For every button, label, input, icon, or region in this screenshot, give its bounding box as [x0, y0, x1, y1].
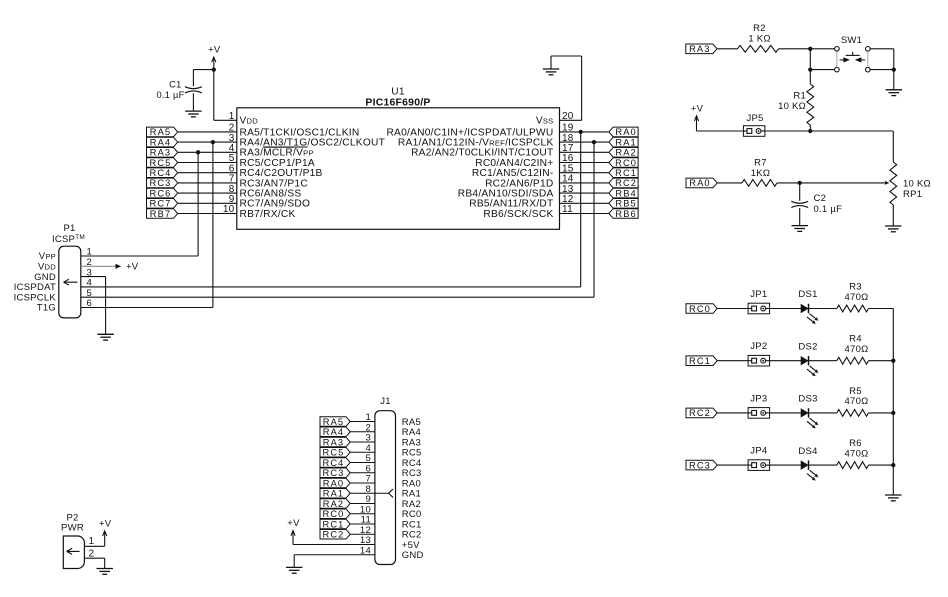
net flag RC3 (U1 pin 7): [147, 178, 178, 188]
wire R7 to RP1 wiper: [777, 182, 885, 184]
svg-text:RA2: RA2: [323, 499, 344, 509]
junction LED bus row 3: [891, 411, 895, 415]
svg-text:SW1: SW1: [841, 35, 862, 46]
svg-text:RA0: RA0: [689, 178, 710, 188]
net flag RC5 (J1 pin 4): [320, 447, 350, 457]
U1 pin 18 name: [398, 133, 574, 149]
wire RA3 to R2: [717, 48, 737, 50]
P1 pin 2 label: [38, 257, 92, 273]
svg-text:JP4: JP4: [750, 446, 767, 457]
U1 pin 16 name: [475, 153, 574, 169]
U1 pin 15 name: [472, 163, 574, 179]
junction VPP on RA3 wire: [196, 150, 200, 154]
U1 pin 11 name: [483, 204, 573, 220]
P1 pin 4 label: [14, 278, 92, 294]
LED DS1: [801, 304, 818, 324]
net flag RA5 (J1 pin 1): [320, 417, 350, 427]
svg-text:470Ω: 470Ω: [845, 448, 869, 459]
wire to C1: [193, 69, 213, 71]
wire J1 pin 7: [350, 482, 375, 484]
wire RC0 to JP1: [718, 308, 749, 310]
capacitor C1: [156, 70, 201, 112]
P2 pin numbers: [89, 536, 95, 560]
ground at LED bus: [885, 495, 902, 501]
svg-text:10 KΩ: 10 KΩ: [778, 101, 806, 112]
svg-text:JP1: JP1: [750, 289, 767, 300]
wire DS3 to R5: [808, 412, 836, 414]
switch SW1 pushbutton: [835, 35, 870, 72]
svg-text:DS3: DS3: [798, 394, 817, 405]
svg-text:+V: +V: [691, 103, 704, 114]
wire J1 pin 5: [350, 462, 375, 464]
LED DS4: [801, 460, 818, 480]
jumper JP1: [748, 303, 770, 314]
net flag RC3 (J1 pin 6): [320, 468, 350, 478]
P1 pin 3 label: [34, 267, 92, 283]
svg-text:RC5: RC5: [323, 448, 345, 458]
svg-text:R7: R7: [754, 158, 767, 169]
resistor R5: [837, 386, 869, 416]
net flag RA1 (U1 pin 18): [609, 137, 638, 147]
U1 pin 3 name: [229, 133, 385, 149]
wire U1 pin 19 stub: [560, 131, 609, 133]
svg-text:RB4: RB4: [615, 188, 636, 198]
resistor R3: [837, 282, 869, 312]
wire U1 pin 17 stub: [560, 151, 609, 153]
net flag RA0 (J1 pin 7): [320, 478, 350, 488]
net flag RC6 (U1 pin 8): [147, 188, 178, 198]
wire P1 pin3 GND: [81, 277, 106, 335]
U1 pin 7 name: [229, 174, 308, 190]
net flag RC1 (U1 pin 15): [609, 168, 638, 178]
net flag RA4 (J1 pin 2): [320, 427, 350, 437]
J1 pin8 key mark: [375, 489, 393, 497]
U1 pin 4 name: [229, 143, 314, 159]
svg-text:RA2: RA2: [615, 148, 636, 158]
svg-text:1: 1: [89, 536, 95, 547]
net flag RC3 (LED row 4): [686, 460, 717, 470]
svg-text:RA0: RA0: [615, 127, 636, 137]
wire U1 pin 18 stub: [560, 141, 609, 143]
svg-text:RC3: RC3: [150, 178, 172, 188]
wire R3 to ground bus: [869, 308, 894, 310]
wire JP5 to RP1 top: [765, 131, 893, 162]
junction C2 tap: [798, 181, 802, 185]
wire U1 pin 9 stub: [178, 202, 237, 204]
P1 pin2 +V arrow: [81, 262, 139, 273]
wire J1 pin 9: [350, 503, 375, 505]
wire ICSPCLK (U1 pin18 to P1 pin5): [81, 142, 594, 297]
ground at SW1: [886, 90, 903, 96]
wire J1 pin 4: [350, 451, 375, 453]
U1 pin 1 name: [229, 111, 259, 127]
net flag RB6 (U1 pin 11): [609, 209, 638, 219]
connector J1 body: [375, 396, 396, 565]
svg-text:RB5: RB5: [615, 199, 636, 209]
svg-text:RA4: RA4: [150, 137, 171, 147]
svg-text:U1: U1: [391, 87, 405, 98]
wire U1 pin 6 stub: [178, 172, 237, 174]
wire JP1 to DS1: [770, 308, 801, 310]
wire RC2 to JP3: [718, 412, 749, 414]
svg-text:RC2: RC2: [323, 530, 345, 540]
junction R1 top: [808, 67, 812, 71]
svg-text:RA3: RA3: [323, 437, 344, 447]
ground at P1 pin3: [97, 334, 114, 340]
net flag RC4 (U1 pin 6): [147, 168, 178, 178]
net flag RC2 (J1 pin 12): [320, 529, 350, 539]
svg-text:RA3: RA3: [150, 148, 171, 158]
wire ICSPDAT (U1 pin19 to P1 pin4): [81, 132, 581, 287]
svg-text:0.1 µF: 0.1 µF: [814, 204, 843, 215]
wire VPP (RA3 to P1 pin1): [81, 152, 198, 256]
wire U1 pin 10 stub: [178, 213, 237, 215]
wire J1 pin14 to ground: [294, 555, 375, 568]
svg-text:RA3: RA3: [689, 44, 710, 54]
wire U1 pin 2 stub: [178, 131, 237, 133]
wire RA0 to R7: [718, 182, 743, 184]
U1 pin 17 name: [411, 143, 574, 159]
svg-text:RA5: RA5: [150, 127, 171, 137]
net flag RC0 (LED row 1): [686, 304, 717, 314]
wire T1G (RA4 to P1 pin6): [81, 142, 213, 307]
svg-text:DS2: DS2: [798, 341, 817, 352]
wire R4 to ground bus: [869, 360, 894, 362]
net flag RC0 (U1 pin 16): [609, 158, 638, 168]
junction LED bus row 4: [891, 463, 895, 467]
wire U1 pin 12 stub: [560, 202, 609, 204]
ground below C1: [185, 111, 202, 117]
wire U1 VSS pin 20 to ground: [551, 56, 582, 120]
junction R1 bottom / JP5 wire: [808, 129, 812, 133]
wire J1 pin 1: [350, 421, 375, 423]
svg-text:RC6: RC6: [150, 188, 172, 198]
net flag RC1 (J1 pin 11): [320, 519, 350, 529]
wire J1 pin 3: [350, 441, 375, 443]
svg-text:GND: GND: [402, 550, 424, 561]
svg-text:RB7/RX/CK: RB7/RX/CK: [240, 209, 296, 220]
net flag RC0 (J1 pin 10): [320, 509, 350, 519]
wire JP3 to DS3: [770, 412, 801, 414]
wire J1 pin 11: [350, 523, 375, 525]
net flag RA4 (U1 pin 3): [147, 137, 178, 147]
wire J1 pin 8: [350, 492, 375, 494]
svg-text:J1: J1: [380, 396, 391, 407]
P1 pin 1 label: [39, 247, 92, 263]
net flag RA1 (J1 pin 8): [320, 488, 350, 498]
U1 pin 20 name: [536, 111, 574, 127]
svg-text:RC1: RC1: [615, 168, 637, 178]
U1 pin 2 name: [229, 123, 360, 139]
wire RC3 to JP4: [718, 464, 749, 466]
junction LED bus row 2: [891, 359, 895, 363]
resistor R7: [742, 158, 777, 187]
svg-text:RC3: RC3: [323, 468, 345, 478]
svg-text:RC2: RC2: [689, 408, 711, 418]
LED DS3: [801, 408, 818, 428]
junction SW1 right: [892, 67, 896, 71]
resistor R6: [837, 438, 869, 468]
wire U1 pin 7 stub: [178, 182, 237, 184]
svg-text:0.1 µF: 0.1 µF: [156, 90, 184, 100]
jumper JP2: [748, 355, 770, 366]
net flag RC4 (J1 pin 5): [320, 458, 350, 468]
resistor R1: [778, 70, 814, 131]
resistor R4: [837, 334, 869, 364]
wire U1 pin 16 stub: [560, 162, 609, 164]
ground at J1 pin14: [286, 567, 303, 573]
junction T1G on RA4 wire: [211, 140, 215, 144]
svg-text:RC4: RC4: [323, 458, 345, 468]
U1 pin 8 name: [229, 184, 302, 200]
net flag RA3 (switch input): [686, 44, 717, 54]
net flag RB4 (U1 pin 13): [609, 188, 638, 198]
wire R6 to ground bus: [869, 464, 894, 466]
svg-text:1KΩ: 1KΩ: [751, 168, 770, 179]
svg-text:RC0: RC0: [689, 304, 711, 314]
net flag RA2 (U1 pin 17): [609, 148, 638, 158]
capacitor C2: [791, 183, 842, 226]
resistor R2: [738, 23, 779, 52]
svg-text:C2: C2: [814, 193, 827, 204]
svg-text:+V: +V: [99, 518, 112, 529]
svg-text:PWR: PWR: [61, 523, 84, 534]
jumper JP3: [748, 408, 770, 419]
U1 pin 13 name: [458, 184, 574, 200]
net flag RB5 (U1 pin 12): [609, 199, 638, 209]
power +V at JP5: [691, 103, 744, 131]
wire P2 pin1 to +V: [84, 518, 111, 546]
ground below RP1: [885, 226, 902, 232]
U1 pin 6 name: [229, 163, 323, 179]
svg-text:RC7: RC7: [150, 199, 172, 209]
svg-text:RB6: RB6: [615, 209, 636, 219]
wire DS4 to R6: [808, 464, 836, 466]
LED DS2: [801, 356, 818, 376]
wire DS1 to R3: [808, 308, 836, 310]
net flag RA5 (U1 pin 2): [147, 127, 178, 137]
junction R2/SW1/R1: [808, 47, 812, 51]
net flag RA3 (U1 pin 4): [147, 148, 178, 158]
wire R5 to ground bus: [869, 412, 894, 414]
ground at P2: [96, 569, 113, 575]
svg-text:1 KΩ: 1 KΩ: [748, 34, 770, 45]
svg-text:JP5: JP5: [746, 113, 763, 124]
svg-text:RB6/SCK/SCK: RB6/SCK/SCK: [483, 209, 553, 220]
net flag RC2 (U1 pin 14): [609, 178, 638, 188]
svg-text:RC1: RC1: [323, 519, 345, 529]
svg-text:VSS: VSS: [536, 116, 554, 127]
junction C1/VDD: [212, 67, 216, 71]
svg-text:JP3: JP3: [750, 393, 767, 404]
net flag RC5 (U1 pin 5): [147, 158, 178, 168]
junction ICSPDAT on RA0 wire: [579, 130, 583, 134]
U1 pin 12 name: [469, 194, 574, 210]
wire U1 pin 15 stub: [560, 172, 609, 174]
wire SW1 right side to ground: [870, 49, 894, 90]
connector P1 ICSP: [52, 223, 85, 318]
svg-text:P1: P1: [63, 223, 75, 234]
U1 pin 9 name: [229, 194, 311, 210]
wire U1 pin 14 stub: [560, 182, 609, 184]
ground below C2: [791, 226, 808, 232]
op IC U1 PIC16F690 body: [237, 87, 560, 230]
svg-text:RB7: RB7: [150, 209, 171, 219]
U1 pin 19 name: [386, 123, 573, 139]
ground at U1 VSS: [543, 69, 560, 75]
potentiometer RP1: [885, 162, 931, 226]
net flag RC2 (LED row 3): [686, 408, 717, 418]
wire U1 pin 8 stub: [178, 192, 237, 194]
svg-text:RC2: RC2: [615, 178, 637, 188]
svg-text:DS1: DS1: [798, 289, 817, 300]
svg-text:+V: +V: [126, 262, 139, 273]
wire P2 pin2 to ground: [84, 558, 104, 568]
wire JP4 to DS4: [770, 464, 801, 466]
svg-text:RC3: RC3: [689, 460, 711, 470]
wire J1 pin 2: [350, 431, 375, 433]
wire U1 pin 4 stub: [178, 151, 237, 153]
jumper JP4: [748, 460, 770, 471]
svg-text:R2: R2: [753, 23, 766, 34]
svg-text:470Ω: 470Ω: [845, 396, 869, 407]
svg-text:RC0: RC0: [615, 158, 637, 168]
svg-text:T1G: T1G: [37, 303, 56, 314]
svg-text:RC0: RC0: [323, 509, 345, 519]
wire U1 pin 5 stub: [178, 162, 237, 164]
power +V supply to U1 VDD: [208, 45, 237, 121]
P1 pin 6 label: [37, 298, 92, 314]
svg-text:VDD: VDD: [240, 116, 259, 127]
wire LED ground bus: [892, 309, 894, 496]
net flag RA2 (J1 pin 9): [320, 499, 350, 509]
wire U1 pin 11 stub: [560, 213, 609, 215]
wire U1 pin 3 stub: [178, 141, 237, 143]
net flag RC1 (LED row 2): [686, 356, 717, 366]
wire J1 pin 10: [350, 513, 375, 515]
wire DS2 to R4: [808, 360, 836, 362]
connector P2 PWR: [61, 513, 84, 569]
net flag RC7 (U1 pin 9): [147, 199, 178, 209]
svg-text:R1: R1: [793, 91, 806, 102]
svg-text:JP2: JP2: [750, 341, 767, 352]
wire J1 pin 6: [350, 472, 375, 474]
svg-text:470Ω: 470Ω: [845, 292, 869, 303]
U1 pin 10 name: [223, 204, 296, 220]
svg-text:DS4: DS4: [798, 446, 817, 457]
power +V at J1 pin13: [287, 518, 375, 544]
svg-text:RA1: RA1: [615, 137, 636, 147]
U1 pin 14 name: [485, 174, 574, 190]
svg-text:RP1: RP1: [903, 189, 922, 200]
svg-text:+V: +V: [208, 45, 221, 56]
net flag RA0 (pot input): [686, 178, 717, 188]
svg-text:C1: C1: [169, 80, 181, 90]
wire to SW1 lower-left: [810, 69, 834, 71]
svg-text:470Ω: 470Ω: [845, 344, 869, 355]
svg-text:RA0: RA0: [323, 478, 344, 488]
wire RC1 to JP2: [718, 360, 749, 362]
net flag RA0 (U1 pin 19): [609, 127, 638, 137]
svg-text:10 KΩ: 10 KΩ: [903, 178, 931, 189]
svg-text:6: 6: [87, 298, 93, 309]
wire U1 pin 13 stub: [560, 192, 609, 194]
net flag RA3 (J1 pin 3): [320, 437, 350, 447]
P1 pin 5 label: [14, 288, 92, 304]
svg-text:RC5: RC5: [150, 158, 172, 168]
svg-text:RA5: RA5: [323, 417, 344, 427]
wire junction down: [809, 49, 811, 68]
svg-text:RA4: RA4: [323, 427, 344, 437]
svg-text:PIC16F690/P: PIC16F690/P: [365, 98, 430, 109]
junction ICSPCLK on RA1 wire: [592, 140, 596, 144]
svg-text:RA1: RA1: [323, 489, 344, 499]
U1 pin 5 name: [229, 153, 315, 169]
wire R2 to SW1: [779, 48, 835, 50]
wire J1 pin 12: [350, 533, 375, 535]
svg-text:+V: +V: [287, 518, 300, 529]
svg-text:RC4: RC4: [150, 168, 172, 178]
jumper JP5: [743, 126, 765, 137]
svg-text:RC1: RC1: [689, 356, 711, 366]
wire JP2 to DS2: [770, 360, 801, 362]
net flag RB7 (U1 pin 10): [147, 209, 178, 219]
